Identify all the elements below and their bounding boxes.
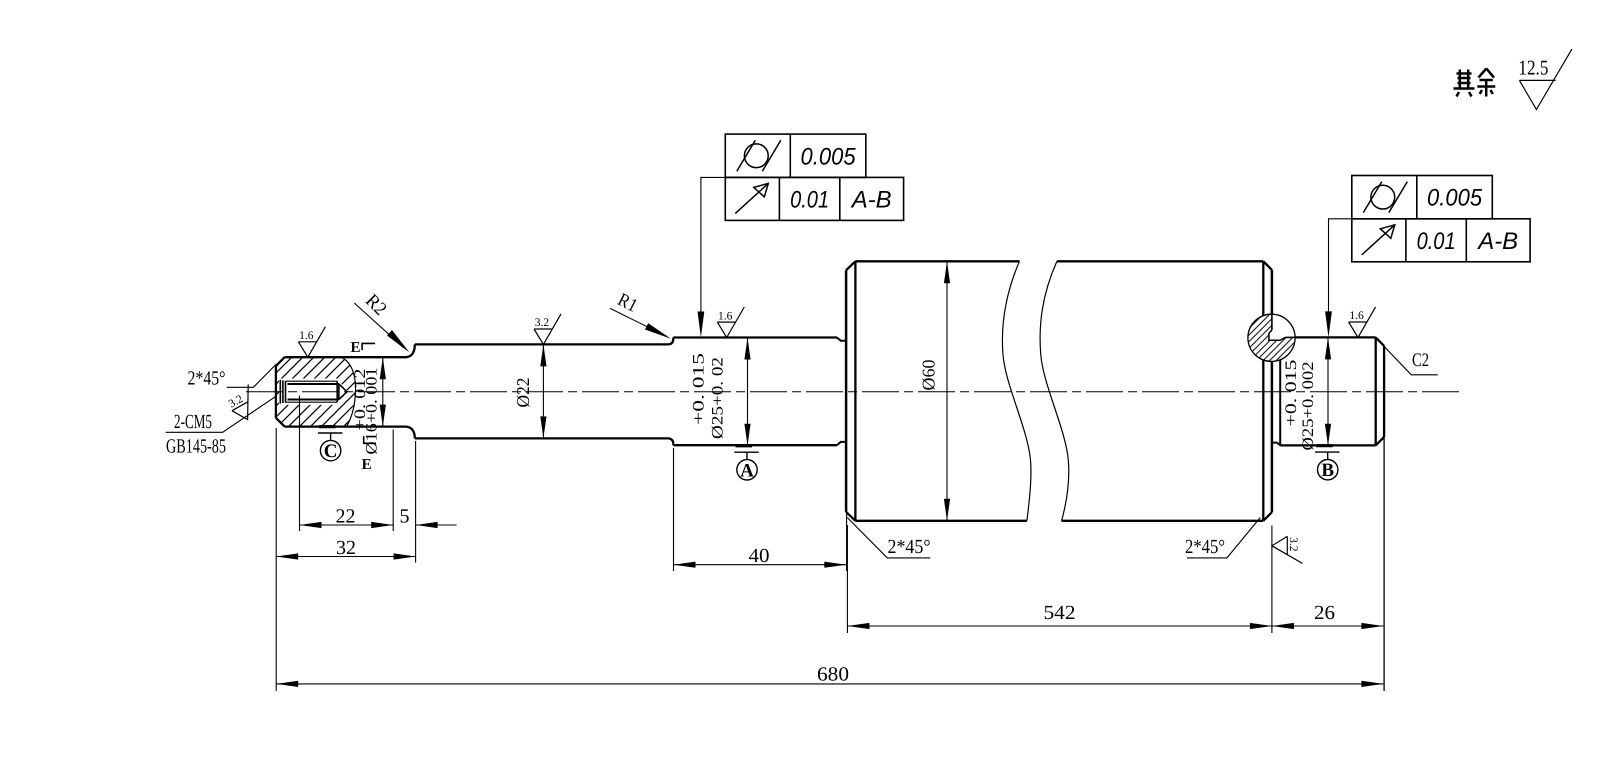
40 dim arrow left bbox=[674, 562, 696, 568]
extension line Ø60 left face for 542 bbox=[846, 525, 848, 633]
roughness 1.6 on Ø25 left bbox=[717, 307, 744, 338]
center hole thread major bottom line bbox=[286, 401, 338, 403]
5 dim arrow bbox=[416, 522, 438, 528]
center hole label leader bbox=[166, 396, 276, 432]
26 dim arrow left bbox=[1272, 623, 1294, 629]
svg-text:A-B: A-B bbox=[850, 186, 892, 213]
Ø25 left shoulder face top bbox=[672, 338, 674, 340]
svg-text:GB145-85: GB145-85 bbox=[166, 436, 226, 458]
Ø22 section bottom edge bbox=[415, 437, 669, 439]
Ø22 dim arrow top bbox=[540, 344, 546, 366]
Ø60 right top chamfer bbox=[1263, 261, 1272, 270]
extension line left face bbox=[275, 428, 277, 691]
partial section blob white background bbox=[1248, 314, 1295, 361]
svg-text:0.01: 0.01 bbox=[790, 186, 829, 213]
partial section hatching of relief groove bbox=[1248, 312, 1298, 361]
Ø25 left dim arrow top bbox=[744, 338, 750, 360]
Ø22 section top edge bbox=[415, 343, 669, 345]
R1 leader line bbox=[610, 308, 666, 336]
R2 leader arrow bbox=[387, 330, 410, 353]
relief groove step bottom bbox=[837, 442, 846, 445]
left end face of shaft bbox=[275, 366, 277, 418]
left end top chamfer 2x45 bbox=[276, 357, 285, 366]
extension line from center hole for 22 bbox=[299, 396, 301, 532]
roughness 3.2 on Ø22 bbox=[534, 314, 561, 345]
Ø25 right bottom edge bbox=[1280, 444, 1376, 446]
svg-text:B: B bbox=[1321, 460, 1334, 481]
32 dim arrow right bbox=[394, 553, 416, 559]
40 dimension line bbox=[674, 564, 847, 566]
chamfer 2*45 Ø60 right leader bbox=[1187, 518, 1260, 558]
svg-text:Ø60: Ø60 bbox=[919, 360, 939, 391]
svg-text:+0. 015: +0. 015 bbox=[1283, 360, 1300, 427]
feature control frame 2 (cylindricity 0.005 / runout 0.01 A-B) bbox=[1352, 176, 1493, 219]
Ø16 section top edge bbox=[285, 356, 407, 358]
svg-text:0.005: 0.005 bbox=[801, 143, 857, 170]
roughness 1.6 on Ø25 right bbox=[1349, 307, 1376, 338]
relief groove step bottom right bbox=[1272, 443, 1280, 446]
FCF2 leader arrow bbox=[1325, 311, 1332, 337]
roughness 1.6 on Ø16 bbox=[298, 327, 325, 358]
center hole thread minor bottom line bbox=[288, 399, 339, 401]
5 dim outside arrow with tail bbox=[416, 524, 457, 526]
Ø60 dimension line bbox=[946, 261, 948, 521]
Ø22 dimension line bbox=[542, 344, 544, 438]
section mark E bottom bracket bbox=[364, 436, 376, 443]
partial section blob outline bbox=[1248, 314, 1295, 361]
svg-text:2*45°: 2*45° bbox=[888, 536, 931, 558]
right end face thick part bbox=[1383, 346, 1385, 437]
Ø60 left chamfer edge line bbox=[854, 261, 856, 521]
Ø25 left shoulder face bottom bbox=[672, 444, 674, 445]
FCF2 leader bbox=[1329, 219, 1352, 326]
center hole thread major top line bbox=[286, 380, 338, 382]
Ø16 section bottom edge bbox=[285, 425, 407, 427]
Ø60 bottom edge right of break bbox=[1062, 520, 1264, 522]
Ø25 right dim arrow bottom bbox=[1325, 424, 1331, 446]
C2 leader bbox=[1384, 347, 1438, 375]
Ø25 journal bottom edge bbox=[673, 444, 837, 446]
wire centerline of shaft axis bbox=[246, 391, 1462, 393]
relief groove step top bbox=[837, 338, 846, 341]
left end bottom chamfer 2x45 bbox=[276, 418, 285, 427]
center hole mouth countersink line 1 bbox=[279, 380, 281, 404]
broken-out section hatching at left end (center hole) bbox=[276, 357, 356, 426]
svg-text:32: 32 bbox=[336, 537, 356, 559]
svg-text:Ø22: Ø22 bbox=[513, 378, 533, 408]
Ø22 dim arrow bottom bbox=[540, 416, 546, 438]
extension line Ø22 face for 5 and 32 bbox=[415, 441, 417, 563]
svg-text:0.01: 0.01 bbox=[1417, 228, 1456, 255]
svg-text:1.6: 1.6 bbox=[718, 310, 733, 322]
extension line Ø60 right face for 542 and 26 bbox=[1271, 526, 1273, 634]
break line of broken-out section bbox=[341, 357, 356, 426]
Ø25 right top edge bbox=[1285, 336, 1375, 338]
Ø25 left dim arrow bottom bbox=[744, 424, 750, 446]
svg-text:E: E bbox=[350, 340, 360, 356]
break line right bbox=[1040, 261, 1069, 521]
svg-text:5: 5 bbox=[400, 506, 410, 528]
542 dim arrow left bbox=[847, 623, 869, 629]
C2 top chamfer bbox=[1376, 337, 1384, 346]
relief groove profile bbox=[1269, 330, 1286, 340]
FCF1 leader arrow bbox=[698, 312, 705, 338]
center hole thread minor top line bbox=[288, 383, 339, 385]
svg-text:0.005: 0.005 bbox=[1427, 185, 1483, 212]
Ø60 left face bbox=[845, 270, 848, 512]
680 dimension line bbox=[276, 683, 1383, 685]
Ø25 left dimension line bbox=[747, 338, 749, 446]
Ø60 dim arrow bottom bbox=[944, 499, 950, 521]
svg-text:C2: C2 bbox=[1412, 350, 1429, 371]
fillet R1 top into Ø25 shoulder bbox=[668, 339, 673, 344]
26 dimension line bbox=[1272, 625, 1384, 627]
40 dim arrow right bbox=[824, 562, 846, 568]
svg-text:A-B: A-B bbox=[1476, 228, 1518, 255]
Ø60 top edge right of break bbox=[1057, 260, 1263, 262]
32 dim arrow left bbox=[276, 553, 298, 559]
Ø60 bottom edge left of break bbox=[855, 520, 1027, 522]
feature control frame 1 (cylindricity 0.005 / runout 0.01 A-B) bbox=[725, 134, 866, 177]
center hole thread end line bbox=[336, 381, 338, 402]
general roughness note text 其 (Chinese) bbox=[1454, 70, 1475, 97]
svg-text:C: C bbox=[324, 441, 338, 462]
Ø60 dim arrow top bbox=[944, 261, 950, 283]
right end face and extension line bbox=[1383, 346, 1385, 691]
Ø16 dimension line bbox=[382, 357, 384, 426]
svg-text:Ø16+0. 001: Ø16+0. 001 bbox=[364, 368, 381, 455]
datum B symbol bbox=[1316, 444, 1333, 447]
Ø60 face inside blob bbox=[1271, 314, 1273, 330]
extension line Ø25 left face for 40 bbox=[673, 448, 675, 571]
32 dimension line bbox=[276, 556, 415, 558]
right end chamfer edge line bbox=[1375, 337, 1377, 445]
Ø60 right chamfer edge line bbox=[1262, 261, 1264, 521]
datum A symbol bbox=[736, 444, 753, 447]
datum C symbol bbox=[319, 425, 336, 428]
extension line at fillet start for 22 bbox=[392, 430, 394, 532]
26 dim arrow right bbox=[1361, 623, 1383, 629]
Ø25 top edge inside blob bbox=[1285, 336, 1294, 338]
R2 leader line bbox=[354, 303, 404, 348]
Ø60 top edge left of break bbox=[855, 260, 1019, 262]
svg-text:3.2: 3.2 bbox=[535, 317, 550, 329]
svg-text:1.6: 1.6 bbox=[299, 330, 314, 342]
svg-text:Ø25+0. 02: Ø25+0. 02 bbox=[710, 357, 727, 439]
680 dim arrow right bbox=[1361, 681, 1383, 687]
542 dimension line bbox=[847, 625, 1272, 627]
general roughness note text 余 (Chinese) bbox=[1477, 69, 1495, 97]
Ø60 left bottom chamfer bbox=[846, 512, 855, 521]
svg-text:40: 40 bbox=[749, 545, 770, 567]
Ø60 left top chamfer bbox=[846, 261, 855, 270]
svg-text:680: 680 bbox=[817, 664, 849, 686]
svg-text:542: 542 bbox=[1044, 602, 1076, 624]
22 dim arrow right bbox=[371, 522, 393, 528]
center hole mouth countersink line 2 bbox=[282, 380, 284, 403]
Ø60 right bottom chamfer bbox=[1263, 512, 1272, 521]
svg-text:2*45°: 2*45° bbox=[1185, 536, 1225, 558]
svg-text:A: A bbox=[740, 460, 754, 481]
roughness 12.5 general note symbol bbox=[1518, 49, 1572, 109]
22 dimension line bbox=[300, 524, 394, 526]
chamfer label 2*45 left end leader bbox=[227, 364, 276, 387]
groove silhouette line right shoulder bbox=[1279, 340, 1281, 445]
center hole cone tip bbox=[339, 384, 347, 400]
542 dim arrow right bbox=[1250, 623, 1272, 629]
fillet R2 top into Ø22 shoulder bbox=[407, 344, 415, 357]
Ø25 right dimension line bbox=[1327, 337, 1329, 445]
svg-text:22: 22 bbox=[336, 506, 356, 528]
svg-text:3.2: 3.2 bbox=[1287, 537, 1299, 552]
svg-text:2-CM5: 2-CM5 bbox=[174, 411, 212, 433]
center hole pilot end line bbox=[338, 384, 340, 400]
FCF1 leader bbox=[701, 177, 725, 326]
chamfer 2*45 Ø60 left leader bbox=[847, 518, 930, 558]
break line left bbox=[1002, 261, 1031, 521]
R1 leader arrow bbox=[645, 323, 671, 339]
Ø60 right face bbox=[1271, 270, 1274, 512]
fillet R1 bottom into Ø25 shoulder bbox=[668, 438, 673, 443]
roughness 3.2 on center hole leader bbox=[225, 384, 263, 424]
22 dim arrow left bbox=[300, 522, 322, 528]
C2 bottom chamfer bbox=[1376, 437, 1384, 446]
fillet R2 bottom into Ø22 shoulder bbox=[407, 427, 415, 439]
680 dim arrow left bbox=[276, 681, 298, 687]
svg-text:1.6: 1.6 bbox=[1349, 310, 1364, 322]
roughness 3.2 on Ø60 right face bbox=[1272, 536, 1303, 563]
svg-text:+0. 015: +0. 015 bbox=[691, 353, 708, 425]
svg-text:12.5: 12.5 bbox=[1518, 56, 1548, 80]
Ø16 dim arrow bottom bbox=[380, 405, 386, 427]
svg-text:26: 26 bbox=[1314, 602, 1335, 624]
Ø25 journal top edge bbox=[673, 336, 837, 338]
Ø25 right dim arrow top bbox=[1325, 337, 1331, 359]
svg-text:E: E bbox=[362, 457, 372, 473]
svg-text:2*45°: 2*45° bbox=[188, 368, 226, 390]
Ø16 dim arrow top bbox=[380, 357, 386, 379]
svg-text:Ø25+0. 002: Ø25+0. 002 bbox=[1300, 362, 1317, 451]
extension line Ø25 right for 40 bbox=[846, 514, 848, 571]
section mark E top bracket bbox=[362, 343, 375, 350]
center hole mouth countersink line 3 bbox=[285, 381, 287, 403]
